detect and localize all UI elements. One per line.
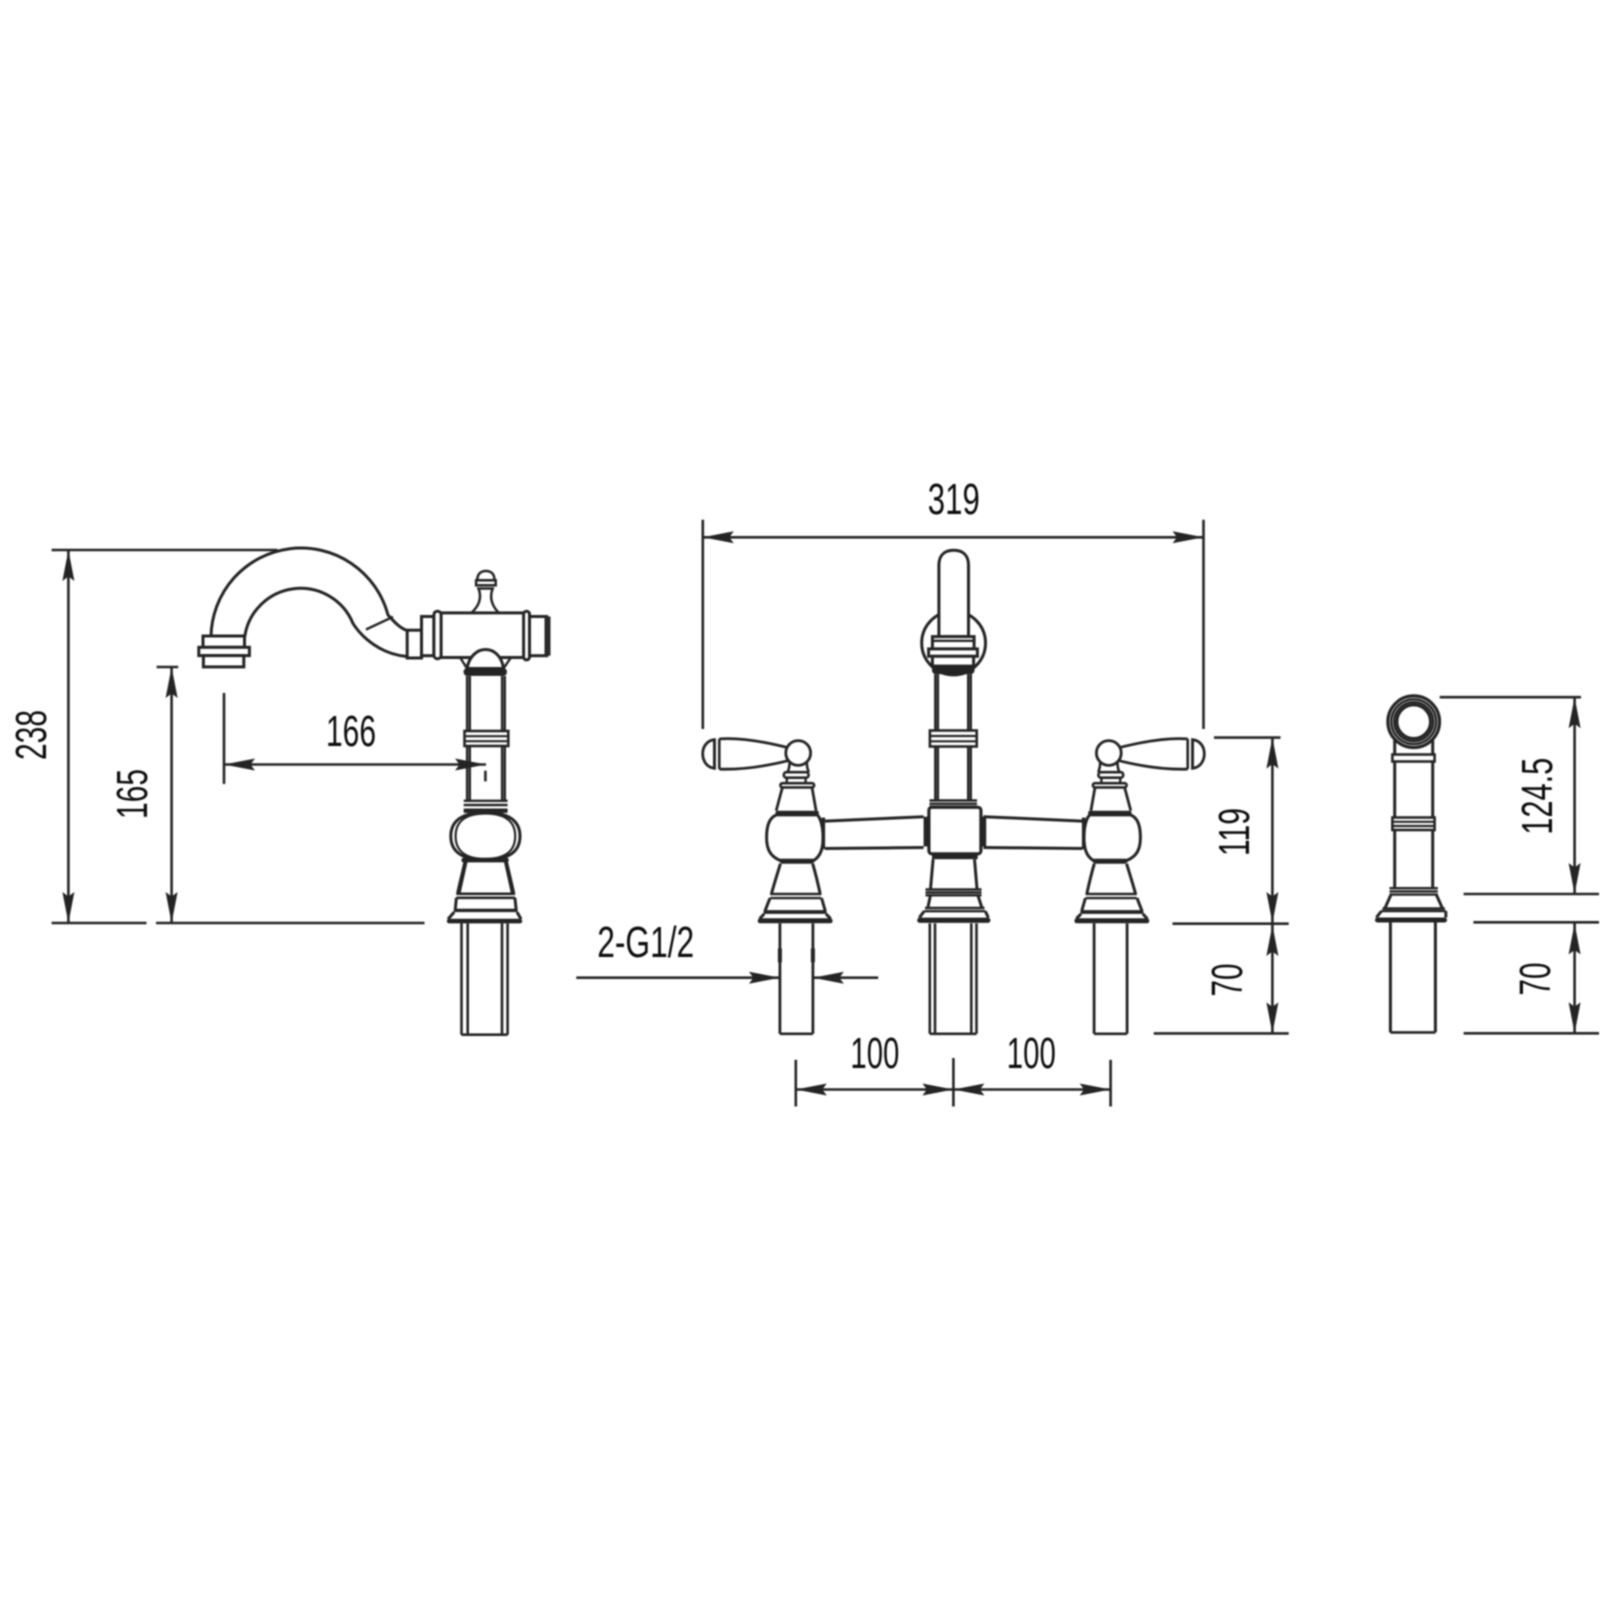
dim 70 mid line [1271, 924, 1274, 1034]
dim 124.5 top extension line [1440, 696, 1581, 699]
valve bulb [767, 815, 823, 860]
svg-text:100: 100 [850, 1029, 899, 1078]
dim 165 top tick [157, 666, 179, 669]
dim 124.5 arrow up [1569, 697, 1581, 728]
centre swivel circle [922, 611, 986, 675]
knob egg [703, 740, 715, 769]
dim 70 right line [1573, 922, 1576, 1033]
dim 70 right arrow down [1569, 1002, 1581, 1033]
centre flange band 2 [929, 649, 978, 656]
dim 70 right bottom extension line [1464, 1032, 1599, 1035]
2-G1/2 arrow left-pointing [813, 972, 844, 984]
stem ring [780, 783, 814, 787]
column tube upper [467, 676, 505, 731]
dim 70 mid bottom tick [1154, 1032, 1289, 1035]
body right ring [524, 611, 530, 660]
svg-text:2-G1/2: 2-G1/2 [597, 918, 694, 967]
valve pipe [780, 923, 813, 1033]
dim 166 arrow right [455, 759, 486, 771]
2-G1/2 arrow right-pointing [749, 972, 780, 984]
valve bell step dark band [764, 910, 827, 914]
body right cap dark edge [545, 617, 551, 656]
knob rings [714, 739, 719, 769]
dim 319 right extension line [1202, 520, 1205, 729]
left valve assembly [703, 739, 833, 1034]
bench tick right of middle view [1173, 922, 1289, 925]
svg-text:238: 238 [7, 710, 56, 760]
column tube lower [467, 746, 505, 800]
dim 70 right top extension line [1473, 921, 1599, 924]
body finial [470, 589, 501, 615]
centre spout tube with dome top [939, 550, 969, 636]
dim 100 right tick [1109, 1060, 1112, 1107]
dim 119 arrow up [1266, 738, 1278, 769]
right bridge arm top line [983, 817, 1082, 821]
dim 319 arrow left [703, 531, 734, 543]
spout outer curve [211, 548, 407, 637]
2-G1/2 leader line left [576, 976, 780, 979]
side bell [1385, 895, 1443, 909]
dim 166 centre tick [484, 771, 487, 782]
centre lower collar [930, 799, 978, 801]
svg-text:100: 100 [1007, 1029, 1056, 1078]
bench line left segment [52, 922, 147, 925]
dim 319 arrow right [1173, 531, 1204, 543]
dim 119 top tick [1214, 736, 1281, 739]
dim 166 line [224, 763, 486, 766]
side collar 1 [1392, 755, 1434, 762]
svg-text:70: 70 [1203, 964, 1252, 997]
block lower dark band [932, 854, 978, 859]
column mid collar [465, 731, 509, 746]
body main cylinder [441, 613, 525, 658]
lever arm [719, 739, 790, 770]
dim 166 arrow left [224, 759, 255, 771]
dim 124.5 line [1573, 697, 1576, 894]
centre block [929, 807, 981, 854]
spout outlet flange top [203, 636, 245, 647]
stem dark band [776, 811, 819, 815]
centre tube upper [935, 674, 971, 730]
dim 124.5 mid extension line [1464, 893, 1599, 896]
bulb joint bar [822, 818, 826, 850]
pipe edge tick marks [780, 949, 813, 963]
2-G1/2 leader line right [813, 976, 878, 979]
block left joint bar [924, 817, 930, 847]
spout inner curve [245, 588, 408, 656]
dim 119 arrow down [1266, 892, 1278, 923]
side bell bottom dark band [1375, 918, 1447, 923]
centre neck [931, 859, 978, 889]
side base rings [1390, 887, 1438, 889]
block right joint bar [980, 817, 986, 847]
dim 124.5 arrow down [1569, 863, 1581, 894]
svg-text:165: 165 [108, 769, 157, 819]
dim 70 mid arrow down [1266, 1002, 1278, 1033]
dim 319 left extension line [701, 520, 704, 729]
right valve assembly (mirror) [1074, 739, 1204, 1034]
ring circle 3 [1394, 702, 1433, 741]
centre flange band 1 [932, 637, 974, 649]
left bridge arm top line [825, 817, 924, 821]
boss flange [784, 772, 809, 778]
spout outlet flange bottom [203, 656, 243, 667]
bell bottom dark band [447, 919, 522, 924]
side tube upper [1395, 740, 1433, 755]
left pipe [462, 923, 508, 1034]
boss neck [788, 762, 809, 772]
ball lower dark band [462, 858, 509, 863]
body under bump dome [467, 650, 504, 669]
dim 100 centre tick [952, 1058, 955, 1107]
bell ring [456, 892, 515, 895]
bulb lower dark band [780, 859, 814, 864]
dim 119 line [1271, 738, 1274, 923]
dim 319 line [703, 536, 1204, 539]
body left connector [407, 630, 421, 658]
side tube lower [1395, 830, 1433, 888]
bell cone 2 [455, 898, 516, 909]
body finial base plate [476, 580, 496, 585]
svg-text:124.5: 124.5 [1513, 758, 1562, 835]
lever boss [786, 741, 811, 766]
centre bell step [925, 907, 985, 909]
valve bell cone 2 [765, 898, 825, 910]
spout outlet flange wide [199, 647, 250, 655]
svg-text:70: 70 [1511, 963, 1560, 996]
centre flange band 3 [932, 656, 973, 666]
centre bell bottom dark band [917, 918, 990, 923]
centre base rings [926, 888, 982, 890]
left bridge arm bottom line [825, 848, 924, 849]
centre bell flare [919, 911, 988, 917]
side collar 2 [1392, 818, 1434, 831]
centre mid collar [930, 731, 977, 747]
bell flare [448, 912, 521, 919]
ring circle 2 [1391, 699, 1436, 744]
column top dark collar [464, 668, 507, 676]
valve bell cone 1 [771, 864, 820, 894]
dim 100 arrow far right [1080, 1084, 1111, 1096]
dim 70 mid arrow up [1266, 925, 1278, 956]
tapered stem [776, 787, 816, 810]
bell cone inner diagonals [460, 862, 513, 894]
dim 166 extension line [223, 693, 226, 784]
ring outer circle [1388, 696, 1440, 748]
bell step dark band [454, 909, 518, 912]
side tube mid [1395, 762, 1433, 818]
body left ring [434, 611, 441, 659]
svg-text:319: 319 [928, 475, 980, 524]
right bridge arm bottom line [983, 848, 1082, 849]
column lower collar [464, 800, 508, 802]
side pipe bottom [1390, 1031, 1435, 1034]
body finial dome [477, 571, 494, 580]
dim 165 line [170, 667, 173, 923]
dim 238 arrow down [62, 892, 74, 923]
dim 165 arrow down [166, 892, 178, 923]
dim 100 arrow far left [796, 1084, 827, 1096]
stem gap [787, 778, 806, 784]
centre pipe bottom [930, 1033, 977, 1036]
dim 100 line [796, 1088, 1111, 1091]
dim 238 line [67, 550, 70, 923]
bell cone 1 [458, 862, 514, 894]
left pipe bottom [462, 1033, 508, 1036]
centre o-ring dark band [932, 666, 975, 674]
dim 100 arrows centre [922, 1084, 953, 1096]
centre pipe [930, 923, 977, 1033]
spout seam line [366, 617, 393, 630]
valve pipe bottom [780, 1033, 813, 1036]
side bell flare [1376, 911, 1446, 918]
dim 238 arrow up [62, 550, 74, 581]
dim 165 arrow up [166, 667, 178, 698]
centre bell [928, 895, 982, 908]
body right cap [530, 617, 547, 656]
column ball [451, 813, 520, 860]
valve bell bottom dark band [758, 918, 833, 923]
dim 70 right arrow up [1569, 924, 1581, 955]
body under bump diagonals [460, 658, 511, 669]
body left cap [422, 617, 434, 656]
side pipe [1390, 923, 1435, 1033]
valve bell ring [770, 893, 821, 895]
centre tube lower [935, 747, 971, 801]
bench line right segment [156, 922, 425, 925]
svg-text:119: 119 [1210, 808, 1259, 856]
dim 100 left tick [794, 1060, 797, 1107]
dim 238 extension line top [52, 549, 278, 552]
svg-text:166: 166 [326, 707, 376, 756]
valve bell flare [760, 914, 831, 919]
ring inner circle [1397, 705, 1431, 739]
side bell step [1383, 907, 1445, 909]
